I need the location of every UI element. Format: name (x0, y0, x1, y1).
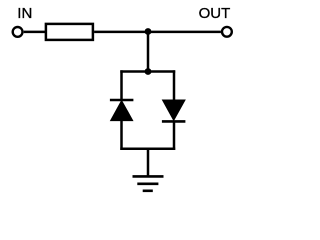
diode D2 cathode bar (162, 120, 186, 123)
wire bottom bar (120, 148, 175, 151)
wire resistor to OUT (94, 31, 221, 34)
wire IN to resistor (24, 31, 46, 34)
svg-text:IN: IN (17, 5, 32, 22)
node junction parallel (145, 68, 152, 75)
wire node down (147, 32, 150, 72)
wire to ground (147, 149, 150, 177)
node junction top (145, 28, 152, 35)
resistor R1 (46, 24, 93, 40)
diode D2 triangle (163, 100, 186, 120)
wire right branch upper (173, 70, 176, 101)
wire left branch upper (120, 70, 123, 101)
ground (133, 176, 164, 190)
terminal OUT (222, 27, 232, 37)
svg-text:OUT: OUT (199, 5, 231, 22)
wire left branch lower (120, 120, 123, 150)
terminal IN (13, 27, 23, 37)
diode D1 cathode bar (110, 99, 133, 102)
wire top bar (120, 70, 175, 73)
diode D1 triangle (111, 101, 133, 121)
wire right branch lower (173, 121, 176, 150)
